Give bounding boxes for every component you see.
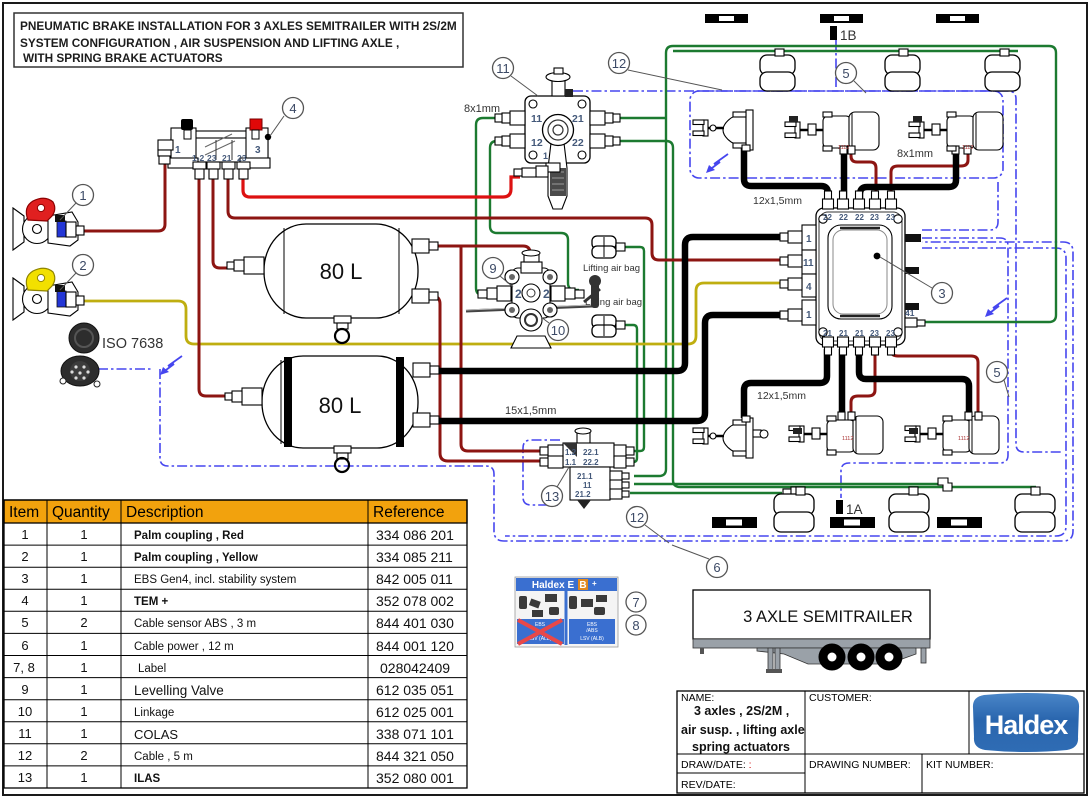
svg-text:844 321 050: 844 321 050 [376,748,454,764]
svg-text:Item: Item [9,504,39,521]
svg-text:LSV (ALB): LSV (ALB) [580,636,604,642]
svg-text:KIT NUMBER:: KIT NUMBER: [926,759,993,771]
svg-text:4: 4 [806,282,812,293]
svg-text:9: 9 [489,261,496,276]
svg-text:5: 5 [21,615,28,630]
svg-text:2: 2 [543,287,550,301]
svg-text:334 085 211: 334 085 211 [376,549,453,565]
svg-text:3: 3 [938,286,945,301]
svg-text:612 025 001: 612 025 001 [376,704,454,720]
svg-text:23: 23 [886,329,895,338]
svg-text:Lifting air bag: Lifting air bag [585,297,642,308]
svg-text:Haldex E: Haldex E [532,580,575,591]
svg-text:334 086 201: 334 086 201 [376,527,454,543]
svg-text:23: 23 [886,213,895,222]
svg-text:8x1mm: 8x1mm [464,103,500,115]
svg-text:spring actuators: spring actuators [692,740,790,754]
svg-text:21: 21 [222,153,232,163]
svg-text:4: 4 [289,101,296,116]
svg-text:1: 1 [79,188,86,203]
svg-text:1: 1 [80,593,87,608]
svg-text:6: 6 [713,560,720,575]
svg-text:air susp. , lifting axle: air susp. , lifting axle [681,723,805,737]
svg-text:10: 10 [551,323,565,338]
svg-text:8: 8 [632,618,639,633]
svg-text:1112: 1112 [838,145,849,151]
svg-text:3 AXLE SEMITRAILER: 3 AXLE SEMITRAILER [743,608,913,626]
svg-text:COLAS: COLAS [134,727,178,742]
svg-text:Palm coupling , Yellow: Palm coupling , Yellow [134,552,258,564]
svg-text:612 035 051: 612 035 051 [376,682,454,698]
svg-text:1.1: 1.1 [565,458,577,467]
svg-text:1B: 1B [840,28,857,43]
svg-text:Cable power , 12 m: Cable power , 12 m [134,641,234,653]
svg-text:22: 22 [823,213,832,222]
svg-text:TEM +: TEM + [134,596,168,608]
svg-text:844 401 030: 844 401 030 [376,615,454,631]
svg-text:21: 21 [855,329,864,338]
svg-text:23: 23 [870,213,879,222]
svg-text:22.1: 22.1 [583,448,599,457]
svg-text:11: 11 [18,726,32,741]
svg-text:12x1,5mm: 12x1,5mm [757,390,806,402]
svg-text:DRAWING NUMBER:: DRAWING NUMBER: [809,759,911,771]
svg-text:22.2: 22.2 [583,458,599,467]
svg-text:352 078 002: 352 078 002 [376,593,454,609]
svg-text:2: 2 [79,258,86,273]
svg-text:7: 7 [632,595,639,610]
svg-text:3 axles , 2S/2M ,: 3 axles , 2S/2M , [694,704,789,718]
svg-text:1: 1 [80,726,87,741]
svg-text:21.2: 21.2 [575,490,591,499]
svg-text:Description: Description [126,504,204,521]
svg-text:Quantity: Quantity [52,504,110,521]
svg-text:12: 12 [18,748,32,763]
svg-text:1: 1 [80,770,87,785]
svg-text:1: 1 [80,660,87,675]
svg-text:3: 3 [21,571,28,586]
svg-text:ILAS: ILAS [134,773,161,785]
svg-text:23: 23 [870,329,879,338]
svg-text:1: 1 [80,571,87,586]
svg-text:1: 1 [175,145,181,156]
svg-text:15x1,5mm: 15x1,5mm [505,405,556,417]
svg-text:EBS Gen4, incl. stability syst: EBS Gen4, incl. stability system [134,574,296,586]
svg-text:11: 11 [803,258,814,269]
svg-text:Cable sensor ABS , 3 m: Cable sensor ABS , 3 m [134,618,256,630]
svg-text:B: B [579,580,586,591]
svg-text:+: + [592,579,597,588]
svg-text:5: 5 [842,66,849,81]
svg-text:6: 6 [21,638,28,653]
svg-text:1112: 1112 [962,145,973,151]
svg-text:DRAW/DATE: :: DRAW/DATE: : [681,759,752,771]
svg-text:1.2: 1.2 [565,448,577,457]
svg-text:Haldex: Haldex [985,710,1069,740]
svg-text:12: 12 [612,56,626,71]
svg-text:80 L: 80 L [320,259,363,284]
svg-text:22: 22 [572,137,584,149]
svg-text:842 005 011: 842 005 011 [376,571,453,587]
svg-text:352 080 001: 352 080 001 [376,770,454,786]
svg-text:1: 1 [80,704,87,719]
svg-text:Lifting air bag: Lifting air bag [583,263,640,274]
svg-text:2: 2 [80,748,87,763]
svg-text:2: 2 [21,549,28,564]
svg-text:1-2: 1-2 [192,153,205,163]
svg-text:ISO 7638: ISO 7638 [102,336,163,352]
svg-text:REV/DATE:: REV/DATE: [681,779,736,791]
svg-text:21: 21 [572,113,584,125]
svg-text:1112: 1112 [842,436,853,442]
svg-text:23: 23 [207,153,217,163]
svg-text:028042409: 028042409 [380,660,450,676]
svg-text:9: 9 [21,682,28,697]
svg-text:7, 8: 7, 8 [13,660,35,675]
svg-text:3: 3 [255,145,261,156]
svg-text:21: 21 [839,329,848,338]
svg-text:1: 1 [80,549,87,564]
svg-text:/ABS: /ABS [586,628,598,634]
svg-text:Cable , 5 m: Cable , 5 m [134,751,193,763]
svg-text:1: 1 [80,682,87,697]
svg-text:Reference: Reference [373,504,445,521]
svg-text:23: 23 [237,153,247,163]
svg-text:SYSTEM CONFIGURATION , AIR SU: SYSTEM CONFIGURATION , AIR SUSPENSION AN… [20,36,399,50]
svg-text:13: 13 [545,489,559,504]
svg-text:21.1: 21.1 [577,472,593,481]
svg-text:11: 11 [496,61,510,76]
svg-text:338 071 101: 338 071 101 [376,726,454,742]
svg-text:EBS: EBS [535,622,546,628]
svg-text:21: 21 [823,329,832,338]
svg-text:1A: 1A [846,502,863,517]
svg-text:41: 41 [905,308,915,318]
svg-text:NAME:: NAME: [681,692,714,704]
svg-text:4: 4 [21,593,28,608]
svg-text:5: 5 [993,365,1000,380]
svg-text:Linkage: Linkage [134,707,174,719]
svg-text:10: 10 [18,704,32,719]
svg-text:22: 22 [839,213,848,222]
svg-text:12: 12 [531,137,543,149]
svg-text:1: 1 [80,527,87,542]
svg-text:11: 11 [531,113,542,125]
svg-text:Levelling Valve: Levelling Valve [134,683,224,698]
svg-text:WITH SPRING BRAKE ACTUATORS: WITH SPRING BRAKE ACTUATORS [23,51,223,65]
svg-text:80 L: 80 L [319,393,362,418]
svg-text:1: 1 [543,151,548,161]
svg-text:12: 12 [630,510,644,525]
svg-text:8x1mm: 8x1mm [897,148,933,160]
svg-text:1: 1 [806,310,812,321]
svg-text:22: 22 [855,213,864,222]
svg-text:CUSTOMER:: CUSTOMER: [809,692,872,704]
svg-text:1112: 1112 [958,436,969,442]
svg-text:1: 1 [21,527,28,542]
svg-text:2: 2 [80,615,87,630]
svg-text:11: 11 [583,481,592,490]
svg-text:2: 2 [515,287,522,301]
svg-text:Label: Label [138,663,166,675]
svg-text:844 001 120: 844 001 120 [376,638,454,654]
svg-text:13: 13 [18,770,32,785]
svg-text:1: 1 [80,638,87,653]
svg-text:Palm coupling , Red: Palm coupling , Red [134,530,244,542]
svg-text:1: 1 [806,234,812,245]
svg-text:PNEUMATIC BRAKE INSTALLATION F: PNEUMATIC BRAKE INSTALLATION FOR 3 AXLES… [20,19,457,33]
svg-text:12x1,5mm: 12x1,5mm [753,195,802,207]
